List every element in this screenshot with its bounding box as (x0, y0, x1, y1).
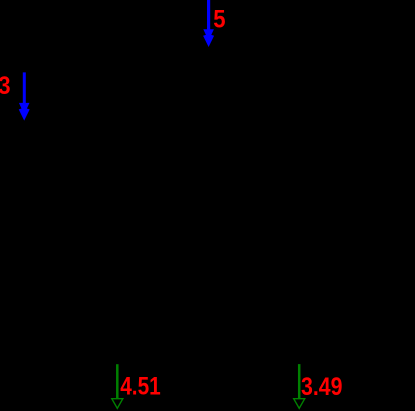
svg-text:4.51: 4.51 (120, 371, 161, 399)
svg-text:5: 5 (213, 5, 225, 34)
svg-text:3: 3 (0, 72, 10, 101)
svg-text:3.49: 3.49 (301, 372, 343, 400)
